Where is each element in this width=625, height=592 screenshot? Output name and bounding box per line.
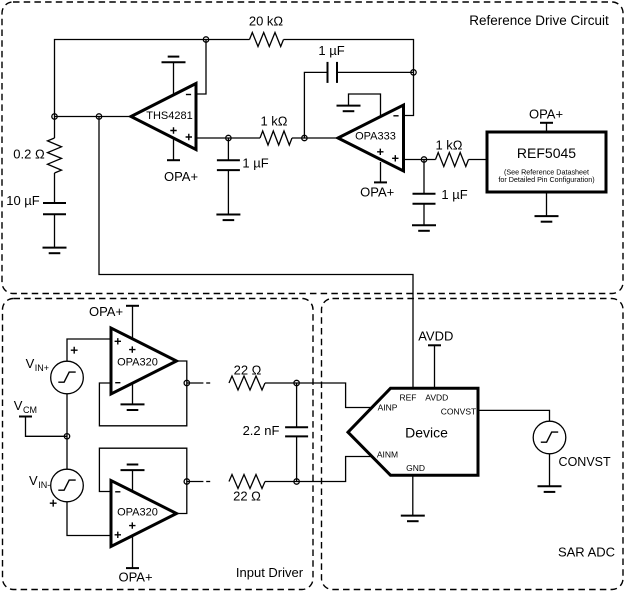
svg-text:OPA320: OPA320 <box>117 357 158 369</box>
svg-text:V: V <box>14 398 23 413</box>
Input Driver section box <box>3 299 314 590</box>
svg-text:0.2 Ω: 0.2 Ω <box>13 147 45 162</box>
wire bottom OPA320 feedback loop <box>99 448 186 491</box>
label CONVST <box>559 455 611 469</box>
ground at Device GND pin <box>401 475 425 521</box>
ground at bottom OPA320 V- (top, inverted) <box>121 465 145 491</box>
svg-text:REF: REF <box>400 393 417 403</box>
resistor 22 Ohm top <box>229 362 265 390</box>
node junction REF filter <box>421 157 426 162</box>
resistor 20 kOhm feedback <box>249 14 284 47</box>
wire VIN+ to OPA320 + input <box>67 339 111 361</box>
ground at top OPA320 V- <box>121 383 145 410</box>
node junction OPA333 inverting net <box>411 70 416 75</box>
ground below 10 uF <box>43 214 67 253</box>
wire THS4281 inverting input stub up to feedback node <box>196 40 206 95</box>
node junction left (0.2 ohm branch) <box>52 114 57 119</box>
svg-text:Input Driver: Input Driver <box>236 565 304 580</box>
svg-text:V: V <box>26 356 35 371</box>
wire 1k to OPA333 output <box>292 137 338 139</box>
svg-text:AVDD: AVDD <box>425 393 448 403</box>
label VIN+ <box>26 356 49 373</box>
capacitor 2.2 nF differential <box>243 383 309 482</box>
svg-text:2.2 nF: 2.2 nF <box>243 423 280 438</box>
svg-text:Device: Device <box>405 425 448 441</box>
wire AINP rail left <box>187 382 210 384</box>
svg-text:1 µF: 1 µF <box>441 187 467 202</box>
SAR ADC section box <box>322 299 624 590</box>
svg-text:20 kΩ: 20 kΩ <box>249 14 284 29</box>
capacitor 1 uF at REF filter <box>413 160 468 204</box>
op-amp THS4281 <box>131 84 196 150</box>
wire CONVST pin to source <box>478 410 550 421</box>
svg-text:AINM: AINM <box>377 449 398 459</box>
terminal VCM <box>14 398 67 436</box>
svg-text:OPA+: OPA+ <box>118 570 152 585</box>
op-amp OPA320 bottom <box>111 481 177 547</box>
voltage reference REF5045 <box>487 132 606 192</box>
node junction bottom OPA320 output <box>184 479 189 484</box>
svg-text:SAR ADC: SAR ADC <box>558 545 615 560</box>
node junction OPA333 output <box>302 135 307 140</box>
ground below REF filter cap <box>412 204 436 231</box>
node junction top feedback / THS4281 inverting branch <box>203 37 208 42</box>
ground at THS4281 V- (top, inverted) <box>162 57 186 95</box>
ground below 1 uF <box>216 170 240 220</box>
svg-text:for Detailed Pin Configuration: for Detailed Pin Configuration) <box>498 175 594 184</box>
svg-text:22 Ω: 22 Ω <box>233 489 261 504</box>
wire AINP rail right to Device <box>265 383 372 408</box>
svg-text:10 µF: 10 µF <box>6 193 40 208</box>
Reference Drive Circuit section box <box>2 2 623 294</box>
wire AINM rail right to Device <box>265 457 372 482</box>
capacitor 10 uF <box>6 173 66 214</box>
svg-text:1 µF: 1 µF <box>242 156 268 171</box>
supply OPA+ at top OPA320 <box>89 304 139 339</box>
capacitor 1 uF feedback OPA333 <box>304 43 413 138</box>
svg-text:Reference Drive Circuit: Reference Drive Circuit <box>469 13 609 28</box>
source CONVST <box>533 421 566 454</box>
svg-text:CONVST: CONVST <box>441 407 476 417</box>
svg-text:1 µF: 1 µF <box>318 43 344 58</box>
node junction VCM <box>64 434 69 439</box>
op-amp OPA320 top <box>111 328 177 394</box>
supply OPA+ at bottom OPA320 <box>118 536 152 585</box>
svg-text:OPA333: OPA333 <box>355 130 396 142</box>
svg-text:AVDD: AVDD <box>418 328 453 343</box>
wire REF sense line to ADC REF pin <box>99 117 413 389</box>
wire THS4281 output to left node <box>55 116 132 118</box>
op-amp OPA333 <box>338 105 404 171</box>
wire common-mode node between sources <box>66 394 68 469</box>
wire bottom OPA320 output <box>177 482 187 514</box>
node junction REF sense branch <box>96 114 101 119</box>
node junction top OPA320 output <box>184 380 189 385</box>
ground below REF5045 <box>535 192 559 222</box>
ground at OPA333 V- (top) <box>337 94 381 117</box>
supply OPA+ at OPA333 V+ <box>360 162 394 199</box>
svg-text:CM: CM <box>23 405 37 415</box>
svg-text:THS4281: THS4281 <box>146 110 192 122</box>
wire top OPA320 output <box>177 361 187 383</box>
resistor 0.2 Ohm <box>13 117 61 174</box>
svg-text:OPA+: OPA+ <box>360 184 394 199</box>
supply OPA+ at REF5045 <box>529 107 563 132</box>
wire THS4281 + input node <box>196 137 260 139</box>
svg-text:OPA+: OPA+ <box>89 304 123 319</box>
svg-text:1 kΩ: 1 kΩ <box>435 138 462 153</box>
svg-text:IN+: IN+ <box>35 363 49 373</box>
wire AINM rail left <box>187 481 210 483</box>
resistor 1 kOhm from REF5045 <box>435 138 468 167</box>
node junction AINM / 2.2nF <box>294 479 299 484</box>
wire 20k right end down to OPA333 inverting node <box>284 40 414 73</box>
supply AVDD terminal <box>418 328 453 388</box>
node junction AINP / 2.2nF <box>294 380 299 385</box>
wire top OPA320 feedback loop <box>99 383 186 426</box>
node junction THS + input <box>226 135 231 140</box>
svg-text:OPA+: OPA+ <box>164 169 198 184</box>
svg-text:IN-: IN- <box>38 480 50 490</box>
source VIN- <box>50 469 84 506</box>
svg-text:REF5045: REF5045 <box>517 145 576 161</box>
svg-text:OPA+: OPA+ <box>529 107 563 122</box>
resistor 1 kOhm between OPA333 out and THS input <box>260 114 292 146</box>
wire feedback top-left from THS4281 output node up and right to 20k <box>55 40 250 117</box>
svg-text:1 kΩ: 1 kΩ <box>260 114 287 129</box>
wire down to OPA333 inverting input <box>404 72 414 115</box>
supply OPA+ at THS4281 V+ <box>164 139 198 184</box>
capacitor 1 uF at THS input <box>217 138 269 171</box>
ground below CONVST source <box>538 454 562 492</box>
svg-text:GND: GND <box>406 463 425 473</box>
wire 1k to REF5045 <box>469 159 488 161</box>
label VIN- <box>29 473 50 490</box>
svg-text:AINP: AINP <box>378 403 398 413</box>
wire OPA333 + input to REF filter node <box>404 159 436 161</box>
wire VIN- to bottom OPA320 + input <box>67 502 111 536</box>
source VIN+ <box>51 347 84 394</box>
svg-text:CONVST: CONVST <box>559 455 611 469</box>
resistor 22 Ohm bottom <box>229 475 265 504</box>
svg-text:V: V <box>29 473 38 488</box>
ADC Device symbol <box>348 388 478 475</box>
svg-text:OPA320: OPA320 <box>117 507 158 519</box>
svg-text:22 Ω: 22 Ω <box>234 362 262 377</box>
